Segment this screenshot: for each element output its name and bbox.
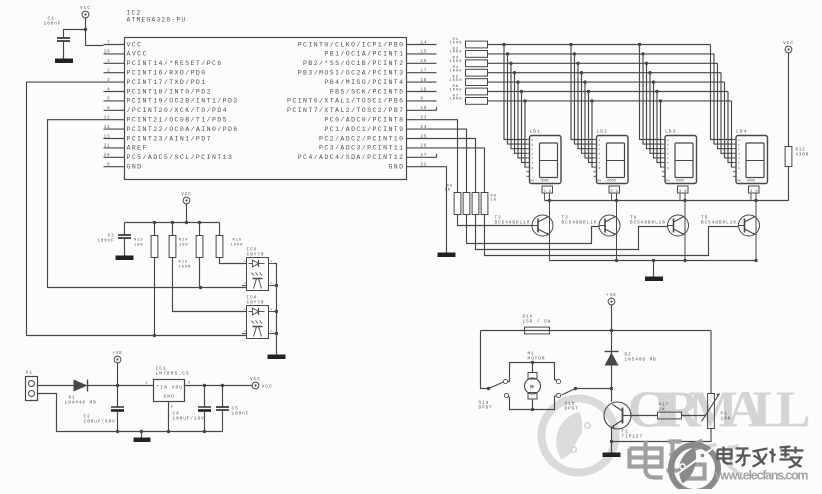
svg-text:7: 7 <box>107 41 110 45</box>
svg-text:100uF/50V: 100uF/50V <box>84 420 116 425</box>
svg-text:100nF: 100nF <box>232 412 250 417</box>
svg-text:MOTOR: MOTOR <box>528 357 546 362</box>
svg-text:1K00: 1K00 <box>450 41 463 45</box>
svg-text:PCINT14/*RESET/PC6: PCINT14/*RESET/PC6 <box>127 60 223 67</box>
svg-text:4: 4 <box>107 88 110 92</box>
svg-text:21: 21 <box>104 145 111 149</box>
svg-text:AVCC: AVCC <box>127 51 148 58</box>
svg-text:PCINT22/OC0A/AIN0/PD6: PCINT22/OC0A/AIN0/PD6 <box>127 126 239 133</box>
svg-text:10K: 10K <box>721 417 732 422</box>
svg-text:1K00: 1K00 <box>450 51 463 55</box>
svg-text:17: 17 <box>421 70 428 74</box>
svg-text:DPDT: DPDT <box>479 406 493 411</box>
svg-text:1N5408 MB: 1N5408 MB <box>625 358 657 363</box>
svg-text:VCC: VCC <box>783 41 794 46</box>
svg-text:1N4448 MB: 1N4448 MB <box>65 401 97 406</box>
svg-text:3: 3 <box>188 382 191 386</box>
svg-text:1K: 1K <box>491 199 497 203</box>
svg-text:1K00: 1K00 <box>450 70 463 74</box>
svg-text:27: 27 <box>421 154 428 158</box>
svg-text:M: M <box>530 384 535 391</box>
svg-text:13: 13 <box>104 135 111 139</box>
svg-text:6: 6 <box>107 107 110 111</box>
svg-text:X1: X1 <box>26 370 34 376</box>
svg-text:BC548BRL10: BC548BRL10 <box>701 221 737 226</box>
svg-text:14: 14 <box>421 41 428 45</box>
svg-text:CNY70: CNY70 <box>247 301 265 306</box>
svg-text:PC4/ADC4/SDA/PCINT12: PC4/ADC4/SDA/PCINT12 <box>298 154 405 161</box>
svg-text:LD1: LD1 <box>530 129 541 135</box>
svg-text:PB4/MISO/PCINT4: PB4/MISO/PCINT4 <box>324 79 404 86</box>
svg-text:2: 2 <box>171 406 174 410</box>
svg-text:VCC: VCC <box>250 377 261 382</box>
svg-text:5: 5 <box>107 98 110 102</box>
svg-text:15: 15 <box>421 51 428 55</box>
svg-text:PCINT18/INT0/PD2: PCINT18/INT0/PD2 <box>127 88 212 95</box>
svg-text:GND: GND <box>127 164 143 171</box>
svg-text:GND: GND <box>388 164 404 171</box>
svg-text:1: 1 <box>145 382 148 386</box>
svg-text:1: 1 <box>107 60 110 64</box>
svg-text:8: 8 <box>107 164 110 168</box>
svg-text:PB3/MOSI/OC2A/PCINT3: PB3/MOSI/OC2A/PCINT3 <box>298 70 405 77</box>
svg-text:25: 25 <box>421 135 428 139</box>
svg-text:1K00: 1K00 <box>450 60 463 64</box>
svg-text:LD2: LD2 <box>597 129 608 135</box>
svg-text:100uF/16V: 100uF/16V <box>173 417 205 422</box>
svg-text:PCINT7/XTAL2/TOSC2/PB7: PCINT7/XTAL2/TOSC2/PB7 <box>287 107 404 114</box>
svg-text:/PCINT20/XCK/T0/PD4: /PCINT20/XCK/T0/PD4 <box>127 107 228 114</box>
svg-text:PCINT6/XTAL1/TOSC1/PB6: PCINT6/XTAL1/TOSC1/PB6 <box>287 98 404 105</box>
svg-text:23: 23 <box>421 117 428 121</box>
svg-text:11: 11 <box>104 117 111 121</box>
svg-text:BC548BRL10: BC548BRL10 <box>630 221 666 226</box>
svg-text:PB5/SCK/PCINT5: PB5/SCK/PCINT5 <box>330 88 405 95</box>
svg-text:PC3/ADC3/PCINT11: PC3/ADC3/PCINT11 <box>319 145 404 152</box>
svg-text:430R: 430R <box>796 154 810 158</box>
svg-text:AREF: AREF <box>127 145 148 152</box>
svg-text:VCC: VCC <box>80 6 91 11</box>
svg-text:R15: R15 <box>233 239 243 243</box>
svg-text:VCC: VCC <box>127 41 143 48</box>
svg-text:ATMEGA328-PU: ATMEGA328-PU <box>127 17 187 24</box>
svg-text:1K: 1K <box>445 189 451 193</box>
svg-text:DPDT: DPDT <box>565 407 579 412</box>
svg-text:15R / 5W: 15R / 5W <box>523 320 552 325</box>
svg-text:100R: 100R <box>231 244 244 248</box>
svg-text:100nF: 100nF <box>44 22 62 27</box>
svg-text:LD3: LD3 <box>665 129 676 135</box>
svg-text:TIP127: TIP127 <box>622 435 644 440</box>
svg-text:10: 10 <box>421 107 428 111</box>
svg-text:19: 19 <box>421 88 428 92</box>
svg-text:9: 9 <box>421 98 424 102</box>
svg-text:100R: 100R <box>179 266 192 270</box>
svg-text:22: 22 <box>421 164 428 168</box>
svg-text:1K00: 1K00 <box>450 79 463 83</box>
svg-text:VCC: VCC <box>262 384 273 390</box>
svg-text:1K00: 1K00 <box>450 98 463 102</box>
svg-text:R12: R12 <box>796 149 806 153</box>
svg-text:26: 26 <box>421 145 428 149</box>
svg-text:PC0/ADC0/PCINT8: PC0/ADC0/PCINT8 <box>324 117 404 124</box>
svg-text:2K: 2K <box>659 408 666 413</box>
svg-text:24: 24 <box>421 126 428 130</box>
svg-text:20: 20 <box>104 51 111 55</box>
svg-text:LD4: LD4 <box>736 129 747 135</box>
svg-text:PCINT0/CLKO/ICP1/PB0: PCINT0/CLKO/ICP1/PB0 <box>298 41 405 48</box>
svg-text:BC548BRL10: BC548BRL10 <box>562 221 598 226</box>
svg-text:PCINT17/TXD/PD1: PCINT17/TXD/PD1 <box>127 79 207 86</box>
svg-text:180: 180 <box>179 244 189 248</box>
svg-text:PCINT21/OC0B/T1/PD5: PCINT21/OC0B/T1/PD5 <box>127 117 228 124</box>
svg-text:16: 16 <box>421 60 428 64</box>
svg-text:+VE: +VE <box>606 293 617 298</box>
svg-text:1K00: 1K00 <box>450 88 463 92</box>
svg-text:180: 180 <box>134 244 144 248</box>
svg-text:IC2: IC2 <box>127 10 142 17</box>
svg-text:PC5/ADC5/SCL/PCINT13: PC5/ADC5/SCL/PCINT13 <box>127 154 234 161</box>
svg-text:R13: R13 <box>134 239 144 243</box>
svg-text:PC1/ADC1/PCINT9: PC1/ADC1/PCINT9 <box>324 126 404 133</box>
svg-text:*IN VOUT: *IN VOUT <box>157 385 187 391</box>
svg-text:LM7805_CS: LM7805_CS <box>156 371 190 377</box>
svg-text:PCINT16/RXD/PD0: PCINT16/RXD/PD0 <box>127 70 207 77</box>
svg-text:PB2/*SS/OC1B/PCINT2: PB2/*SS/OC1B/PCINT2 <box>303 60 404 67</box>
svg-text:R1b: R1b <box>179 260 189 265</box>
svg-text:C3: C3 <box>108 235 115 239</box>
svg-text:2: 2 <box>107 70 110 74</box>
svg-text:PC2/ADC2/PCINT10: PC2/ADC2/PCINT10 <box>319 135 404 142</box>
svg-text:+VE: +VE <box>112 351 123 356</box>
svg-text:CNY70: CNY70 <box>247 253 265 258</box>
svg-text:PB1/OC1A/PCINT1: PB1/OC1A/PCINT1 <box>324 51 404 58</box>
svg-text:GND: GND <box>164 394 175 400</box>
svg-text:BC548BRL10: BC548BRL10 <box>495 221 531 226</box>
svg-text:100nF: 100nF <box>98 240 115 244</box>
svg-text:18: 18 <box>421 79 428 83</box>
svg-text:R14: R14 <box>179 239 189 243</box>
svg-text:PCINT19/OC2B/INT1/PD3: PCINT19/OC2B/INT1/PD3 <box>127 98 239 105</box>
svg-text:PCINT23/AIN1/PD7: PCINT23/AIN1/PD7 <box>127 135 212 142</box>
svg-text:12: 12 <box>104 126 111 130</box>
svg-text:CIRMALL: CIRMALL <box>628 382 811 439</box>
svg-text:28: 28 <box>104 154 111 158</box>
svg-text:www.elecfans.com: www.elecfans.com <box>715 469 809 483</box>
svg-text:VCC: VCC <box>181 192 192 197</box>
svg-text:3: 3 <box>107 79 110 83</box>
